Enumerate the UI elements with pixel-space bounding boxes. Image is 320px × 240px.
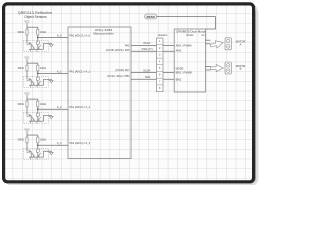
wire W2 mcu to driver: [131, 50, 174, 52]
svg-text:PA0 (ADC0) / A_0: PA0 (ADC0) / A_0: [69, 33, 90, 37]
canvas grid: [5, 5, 254, 182]
wire AO2 stub: [206, 43, 211, 45]
svg-text:(OC0A) PA7: (OC0A) PA7: [115, 68, 130, 72]
svg-text:A_2: A_2: [57, 105, 62, 109]
supply net label DC5V: [145, 14, 157, 19]
svg-text:SDA: SDA: [145, 75, 151, 79]
page background: [0, 0, 260, 185]
frame shadow: [5, 6, 256, 184]
svg-text:BIN1 / PWMB: BIN1 / PWMB: [176, 71, 192, 75]
sensor S3: [18, 92, 68, 123]
svg-text:OC0A: OC0A: [143, 69, 150, 73]
motor driver U2 box: [174, 29, 205, 92]
svg-text:OSR (A7): OSR (A7): [141, 47, 152, 51]
svg-text:(OC1B, ADC5) / PA6: (OC1B, ADC5) / PA6: [106, 48, 130, 52]
svg-text:B: B: [240, 67, 242, 71]
svg-text:A: A: [240, 43, 242, 47]
svg-text:DC5V: DC5V: [147, 15, 156, 19]
canvas background: [4, 4, 254, 182]
arrow to motor A: [210, 39, 224, 49]
arrow to motor B: [210, 65, 223, 72]
motor A terminal: [225, 38, 231, 50]
svg-text:A_3: A_3: [57, 141, 62, 145]
svg-text:Object Sensors: Object Sensors: [24, 15, 47, 19]
sensor S2: [18, 56, 68, 87]
svg-text:PA5: PA5: [125, 43, 130, 47]
svg-text:AIN1 / PWMA: AIN1 / PWMA: [176, 43, 192, 47]
wire supply to driver: [157, 17, 216, 29]
svg-text:MODE: MODE: [176, 66, 184, 70]
svg-text:Driver: Driver: [186, 33, 193, 37]
svg-text:AIN2: AIN2: [176, 49, 182, 53]
microcontroller U1 box: [68, 27, 131, 159]
frame border: [4, 4, 254, 182]
motor B terminal: [225, 62, 231, 74]
svg-text:Headers: Headers: [158, 33, 169, 37]
header J1 cell dividers: [157, 45, 164, 85]
wire W1 mcu to driver: [131, 45, 174, 47]
svg-text:Microcontroller: Microcontroller: [93, 31, 113, 35]
svg-text:(OC1A, SDA) / PB2: (OC1A, SDA) / PB2: [107, 74, 130, 78]
wire W3 mcu to driver: [131, 72, 174, 74]
svg-text:PA3 (ADC3) / A_3: PA3 (ADC3) / A_3: [69, 141, 90, 145]
svg-text:PA2 (ADC2) / A_2: PA2 (ADC2) / A_2: [69, 105, 90, 109]
svg-text:A_1: A_1: [57, 69, 62, 73]
svg-text:PA1 (ADC1) / A_1: PA1 (ADC1) / A_1: [69, 69, 90, 73]
wire BO1 stub: [206, 66, 211, 68]
svg-text:VM: VM: [201, 35, 204, 37]
svg-text:OC1A: OC1A: [143, 41, 150, 45]
sensor S4: [18, 128, 68, 159]
header J1 pin numbers: [159, 40, 161, 90]
wire BO2 stub: [206, 69, 211, 71]
sensor S1: [18, 21, 68, 52]
svg-text:A_0: A_0: [57, 33, 62, 37]
wire AO1 stub: [206, 39, 211, 41]
svg-text:BIN2: BIN2: [176, 78, 182, 82]
header J1 body: [157, 38, 164, 92]
wire W4 mcu to driver: [131, 78, 174, 80]
